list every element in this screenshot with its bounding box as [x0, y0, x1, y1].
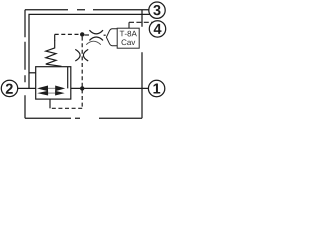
port circle 1	[148, 80, 164, 96]
arrowhead 1 left	[37, 86, 48, 92]
arrowhead 2 right	[55, 91, 65, 96]
arrowhead 2 left	[37, 91, 48, 96]
label text Cav	[121, 39, 135, 45]
internal vertical passage	[67, 67, 69, 89]
orifice on horizontal pilot	[89, 30, 103, 40]
spring	[46, 40, 62, 66]
pilot line upper (dashed)	[55, 34, 106, 40]
junction node upper	[80, 32, 84, 36]
port circle 3	[149, 2, 165, 18]
brace pointing at pilot line	[106, 29, 117, 46]
port 2 digit	[6, 84, 13, 94]
wire main line port1 side	[65, 87, 150, 89]
cavity label box T-8A	[117, 28, 139, 48]
port 1 digit	[153, 84, 160, 94]
port 3 digit	[153, 5, 160, 15]
port circle 4	[149, 21, 165, 37]
junction node on main line	[80, 86, 84, 90]
pilot screen dome under orifice	[86, 41, 101, 45]
port circle 2	[1, 80, 17, 96]
label text T-8A	[120, 31, 137, 37]
wire main line port2 side	[18, 87, 38, 89]
envelope (dashed cartridge boundary)	[25, 10, 149, 119]
leader from label box to port 4	[129, 22, 154, 28]
pilot vertical (dashed)	[81, 37, 83, 109]
flow path 1 shaft (gray)	[48, 87, 56, 89]
wire port3 vent line	[29, 14, 151, 88]
arrowhead 1 right	[55, 86, 65, 92]
flow path 2 shaft (gray)	[48, 92, 56, 94]
orifice on vertical pilot	[75, 49, 88, 61]
drain path lower	[50, 99, 82, 108]
valve body box	[36, 67, 71, 99]
port 4 digit	[154, 24, 162, 34]
